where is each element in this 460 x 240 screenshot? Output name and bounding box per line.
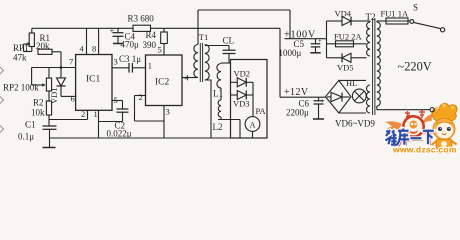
- svg-text:2: 2: [139, 92, 143, 102]
- svg-text:VD2: VD2: [234, 69, 251, 79]
- svg-text:6: 6: [71, 94, 75, 104]
- svg-text:R4: R4: [146, 30, 157, 40]
- svg-text:R2: R2: [33, 98, 44, 108]
- svg-text:IC1: IC1: [86, 75, 101, 85]
- svg-text:1000μ: 1000μ: [279, 48, 302, 58]
- svg-text:A: A: [250, 120, 256, 129]
- svg-text:VD3: VD3: [233, 99, 250, 109]
- svg-text:RP2 100k: RP2 100k: [3, 83, 39, 93]
- svg-text:7: 7: [69, 57, 73, 67]
- svg-text:PA: PA: [256, 106, 267, 116]
- svg-text:3: 3: [166, 107, 170, 117]
- svg-text:+: +: [110, 26, 115, 36]
- svg-text:L2: L2: [213, 122, 223, 132]
- svg-text:+12V: +12V: [284, 87, 309, 98]
- svg-text:470μ: 470μ: [121, 40, 140, 50]
- svg-text:T1: T1: [199, 32, 208, 42]
- svg-text:~220V: ~220V: [398, 60, 432, 74]
- svg-text:VD5: VD5: [337, 63, 354, 73]
- svg-text:47k: 47k: [13, 53, 27, 63]
- svg-text:CL: CL: [223, 36, 235, 46]
- svg-text:5: 5: [158, 45, 162, 55]
- svg-text:20k: 20k: [36, 41, 50, 51]
- svg-text:8: 8: [92, 44, 96, 54]
- svg-text:+: +: [318, 36, 322, 45]
- svg-text:HL: HL: [346, 78, 357, 88]
- svg-text:FU2 2A: FU2 2A: [334, 32, 362, 42]
- svg-text:390: 390: [143, 40, 157, 50]
- svg-text:VD4: VD4: [335, 9, 352, 19]
- svg-text:www.dzsc.com: www.dzsc.com: [392, 145, 457, 155]
- svg-text:VD6~VD9: VD6~VD9: [335, 119, 375, 129]
- svg-text:R3 680: R3 680: [128, 14, 155, 24]
- svg-text:RP1: RP1: [13, 43, 29, 53]
- svg-text:VD1: VD1: [49, 87, 59, 104]
- svg-text:+: +: [321, 96, 325, 105]
- svg-text:C1: C1: [25, 120, 36, 130]
- svg-text:5: 5: [114, 95, 118, 105]
- svg-text:3: 3: [114, 57, 118, 67]
- svg-text:0.022μ: 0.022μ: [107, 129, 132, 139]
- svg-text:0.1μ: 0.1μ: [18, 132, 34, 142]
- svg-text:C3 1μ: C3 1μ: [119, 54, 141, 64]
- svg-text:1: 1: [148, 61, 152, 71]
- svg-text:FU1 1A: FU1 1A: [381, 9, 409, 19]
- svg-text:1: 1: [94, 109, 98, 119]
- svg-text:2200μ: 2200μ: [286, 108, 309, 118]
- svg-text:10k: 10k: [31, 108, 45, 118]
- svg-text:S: S: [413, 3, 418, 13]
- svg-text:IC2: IC2: [155, 78, 170, 88]
